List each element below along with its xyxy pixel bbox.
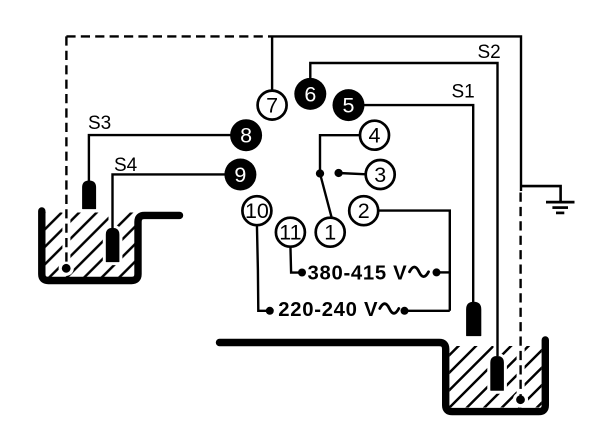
svg-text:S1: S1: [452, 82, 475, 103]
wire: switch moving contact from terminal 1: [320, 174, 332, 219]
electrode S4: [106, 228, 119, 261]
wire: open contact to terminal 3: [339, 173, 367, 174]
wire: earth branch: [521, 186, 561, 201]
terminal 9 (filled): [224, 159, 256, 191]
node: 380-415 left dot: [298, 269, 306, 277]
right tank hatch fill: [450, 346, 542, 408]
electrode S3: [83, 181, 96, 209]
svg-text:S4: S4: [114, 155, 138, 176]
wire: terminal 11 down to 380-415 row: [290, 245, 301, 273]
node: 220-240 right dot: [401, 307, 409, 315]
terminal 1: [316, 218, 345, 247]
node: 380-415 right dot: [433, 268, 441, 276]
svg-text:7: 7: [266, 94, 278, 118]
wire: riser from terminal 7 to top bus: [271, 36, 273, 91]
svg-text:5: 5: [343, 94, 355, 118]
white halo: dashed wire + earth dot in left tank: [59, 213, 119, 276]
terminal 11: [276, 218, 305, 247]
node: reference electrode tip in left tank: [62, 264, 71, 273]
wire: terminal 10 down to 220-240 row: [257, 224, 270, 311]
svg-text:8: 8: [240, 124, 252, 148]
svg-text:S3: S3: [88, 113, 111, 134]
svg-text:6: 6: [304, 82, 316, 106]
wire: 380-415 row right side to rail: [437, 271, 450, 273]
wire: dashed earth continuation into right tank: [519, 193, 521, 397]
AC sine symbol for 380-415: [410, 267, 429, 277]
wire: S3 from terminal 8 to electrode: [89, 135, 232, 181]
terminal 3: [366, 160, 395, 189]
svg-text:2: 2: [358, 199, 370, 223]
terminal 10: [242, 196, 271, 225]
wire: S2 from terminal 6 to electrode: [310, 63, 497, 356]
wire: terminal 2 to voltage rail: [378, 211, 450, 311]
terminal 2: [349, 196, 378, 225]
svg-text:3: 3: [374, 163, 386, 187]
svg-text:380-415 V: 380-415 V: [308, 263, 408, 285]
svg-text:11: 11: [279, 221, 301, 245]
svg-text:S2: S2: [478, 42, 501, 63]
wire: S4 from terminal 9 to electrode: [113, 174, 227, 228]
terminal 5 (filled): [333, 89, 365, 121]
AC sine symbol for 220-240: [380, 304, 399, 314]
svg-text:9: 9: [234, 163, 246, 187]
wire: switch arm feed from terminal 4: [320, 135, 361, 173]
ground: [546, 202, 575, 213]
node: switch open contact (to 3): [334, 169, 342, 177]
left tank: [42, 211, 180, 281]
wire: top bus (solid) from terminal-7 riser to earth drop: [272, 36, 522, 191]
node: switch pivot contact (to 4): [316, 169, 324, 177]
node: 220-240 left dot: [266, 307, 274, 315]
wire: dashed reference-electrode wire, left tank to top bus: [65, 36, 67, 266]
terminal 8 (filled): [230, 119, 262, 151]
right tank: [220, 340, 546, 412]
svg-text:4: 4: [369, 124, 381, 148]
terminal 4: [360, 121, 389, 150]
svg-text:1: 1: [324, 221, 336, 245]
white halo: S2 wire + rod, earth dashed wire + dot in right tank: [491, 346, 528, 407]
node: earth electrode tip in right tank: [516, 395, 525, 404]
left tank hatch fill: [46, 213, 135, 278]
terminal 6 (filled): [294, 78, 326, 110]
wire: S1 from terminal 5 to electrode: [363, 105, 473, 302]
svg-text:220-240 V: 220-240 V: [278, 299, 378, 321]
electrode S2: [491, 357, 504, 391]
svg-text:10: 10: [245, 199, 269, 223]
wire: 220-240 row right side to rail: [404, 310, 450, 312]
electrode S1: [467, 302, 481, 335]
terminal 7: [258, 91, 287, 120]
